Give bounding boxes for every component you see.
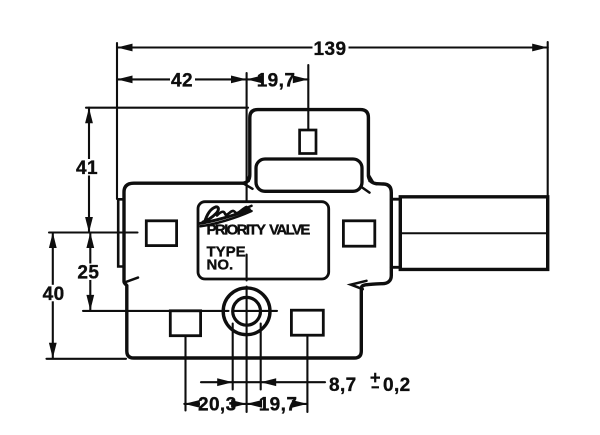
arrowheads 20,3 / 19,7 bottom	[184, 400, 307, 408]
port lower-left	[170, 311, 200, 336]
extension line port lower-right	[306, 335, 308, 412]
wedge top-right flare	[368, 172, 375, 183]
text 20,3	[198, 395, 237, 416]
extension line left (139/42)	[116, 43, 118, 199]
port upper-left	[146, 221, 176, 246]
wedge top-left flare	[245, 172, 250, 183]
text 40	[43, 284, 66, 305]
svg-text:139: 139	[314, 39, 347, 60]
valve body outline	[124, 183, 391, 358]
port lower-right	[291, 310, 323, 335]
dimension 19,7 top	[247, 78, 309, 80]
top solenoid block	[244, 110, 377, 184]
small square port on top block	[300, 130, 316, 154]
svg-text:19,7: 19,7	[259, 395, 298, 416]
right cylinder (spool cap)	[400, 197, 547, 270]
dimension 139	[117, 46, 548, 48]
svg-text:NO.: NO.	[207, 257, 234, 274]
tangent line bore left	[232, 324, 234, 390]
upper ports centerline	[49, 231, 138, 233]
center hole inner circle	[233, 297, 261, 325]
extension line port lower-left	[184, 336, 186, 411]
center hole outer circle	[223, 288, 270, 335]
Danfoss script logo	[200, 206, 252, 227]
text 139	[313, 39, 349, 60]
svg-text:42: 42	[171, 70, 193, 91]
svg-text:8,7: 8,7	[329, 375, 357, 396]
extension line right (139)	[547, 42, 549, 195]
neck between body and cylinder	[391, 199, 400, 267]
dimension 20,3 / 19,7 bottom	[184, 403, 307, 405]
text 19,7 top	[257, 70, 296, 91]
text 25	[77, 263, 100, 284]
svg-text:41: 41	[76, 158, 98, 179]
text 19,7 bottom	[259, 395, 298, 416]
arrowheads 19,7 top	[247, 76, 309, 84]
svg-text:40: 40	[43, 284, 65, 305]
cylinder mid line	[400, 232, 547, 234]
extension line top block top (41)	[86, 107, 248, 109]
extension line top square (19,7)	[307, 65, 309, 130]
svg-text:0,2: 0,2	[383, 375, 411, 396]
port upper-right	[343, 221, 374, 246]
label plate	[198, 202, 329, 279]
tick top-left flare	[244, 184, 253, 189]
left mounting tab	[118, 199, 124, 266]
dimension 8,7 +-0,2	[201, 381, 325, 383]
tick top-right flare	[362, 187, 370, 192]
svg-text:25: 25	[77, 263, 99, 284]
tick bottom-left step	[125, 278, 138, 283]
tick bottom-right step	[351, 281, 367, 289]
dimension 40	[52, 233, 54, 359]
tangent line bore right	[260, 324, 262, 390]
text 41	[76, 158, 99, 179]
svg-text:20,3: 20,3	[198, 395, 237, 416]
svg-text:PRIORITY VALVE: PRIORITY VALVE	[207, 222, 311, 239]
vertical centerline through hole	[246, 73, 248, 412]
dimension 41	[88, 108, 90, 233]
rounded bar on top block	[256, 159, 362, 191]
horizontal centerline through hole	[83, 310, 277, 312]
text 8,7 +-0,2	[329, 373, 411, 396]
svg-text:19,7: 19,7	[257, 70, 296, 91]
text 42	[170, 70, 195, 91]
dimension 42	[117, 78, 247, 80]
extension line bottom left (40)	[47, 358, 127, 360]
dimension 25	[89, 233, 91, 311]
